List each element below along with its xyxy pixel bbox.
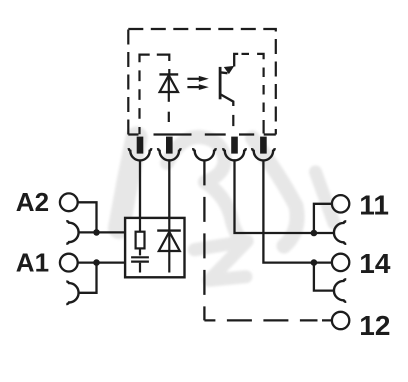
outer module dashed box bottom — [128, 133, 275, 135]
watermark stroke 1 (left band) — [119, 138, 137, 229]
optocoupler LED D1 anode lead — [168, 74, 170, 101]
phototransistor Q1 emitter riser — [234, 54, 238, 67]
plug contact 5 cup — [252, 148, 274, 160]
phototransistor Q1 collector line — [220, 94, 233, 106]
plug contact 4 cup — [223, 148, 245, 160]
svg-text:A2: A2 — [16, 187, 49, 217]
dashed internal wire: collector top run dashes — [242, 53, 250, 55]
dashed internal wire: LED anode to pin2 — [168, 112, 170, 122]
watermark stroke 6 (far right tick) — [316, 172, 335, 223]
phototransistor Q1 base bar — [219, 67, 222, 99]
dashed internal wire: emitter to pin4 — [232, 115, 234, 126]
plug contact 2 wire down — [168, 160, 170, 218]
dashed internal wire: pin5 riser dashes — [263, 68, 265, 134]
dashed internal wire: pin1 riser dashes — [138, 70, 140, 134]
diode D2 triangle — [159, 232, 180, 251]
diode D2 lead top — [168, 218, 170, 273]
wire from clamp A1 up — [79, 264, 97, 293]
plug contact 1 wire down — [139, 160, 141, 218]
wire riser to terminal 11 — [314, 204, 332, 233]
phototransistor Q1 emitter stub to arrow — [220, 71, 228, 74]
clamp contact 14 — [334, 279, 346, 301]
clamp contact 11 — [334, 221, 346, 243]
watermark stroke 3 (center descender) — [205, 182, 242, 241]
junction node at 11 branch — [311, 230, 318, 237]
plug contact 1 cup — [129, 148, 151, 160]
light arrow 2 — [187, 84, 208, 90]
clamp contact A2 — [66, 221, 78, 243]
capacitor C1 lead bottom — [139, 263, 141, 273]
terminal circle 14 — [332, 254, 349, 271]
diode D2 cathode bar — [157, 229, 181, 231]
svg-text:14: 14 — [359, 248, 391, 279]
watermark stroke 5 (right diagonal hook) — [253, 138, 298, 246]
wire from A2 circle — [78, 202, 97, 231]
plug contact 2 cup — [158, 148, 180, 160]
terminal circle 12 — [332, 312, 349, 329]
input circuit box — [125, 218, 184, 277]
dashed internal wire: top run corner to LED — [157, 55, 170, 61]
terminal circle A2 — [60, 193, 78, 211]
outer module dashed box left — [127, 29, 129, 135]
resistor R1 body — [136, 232, 145, 249]
junction node at 14 branch — [311, 259, 318, 266]
wire down to clamp 14 — [314, 263, 334, 291]
light arrow 1 — [187, 76, 208, 82]
plug contact 2 pin — [166, 137, 173, 154]
wire from A1 circle to input box — [78, 261, 125, 263]
svg-text:11: 11 — [359, 190, 389, 221]
dashed internal wire: top right corner — [257, 54, 264, 59]
terminal circle A1 — [60, 254, 78, 272]
plug contact 4 pin — [231, 137, 238, 154]
plug contact 1 pin — [137, 137, 144, 154]
wire from clamp A2 to input box — [79, 231, 126, 233]
optocoupler LED D1 cathode bar — [159, 73, 178, 75]
outer module dashed box top and right — [128, 29, 275, 135]
junction node A2 — [93, 229, 100, 236]
resistor R1 lead bottom — [139, 248, 141, 255]
capacitor C1 plates — [131, 257, 149, 261]
plug contact 5 wire down and right — [263, 160, 332, 262]
phototransistor Q1 emitter arrowhead — [224, 66, 235, 74]
dashed internal wire: pin1 riser corner — [140, 55, 150, 63]
junction node A1 — [93, 259, 100, 266]
dashed wire to terminal 12 (horizontal) — [204, 319, 332, 321]
wire to clamp 11 — [314, 232, 334, 234]
resistor R1 lead top — [139, 218, 141, 232]
terminal circle 11 — [332, 195, 349, 212]
clamp contact A1 — [66, 282, 78, 304]
plug contact 3 cup (no pin) — [193, 148, 215, 160]
dashed internal wire: LED cathode drop dash — [168, 69, 170, 74]
dashed wire to terminal 12 (vertical) — [203, 160, 205, 320]
optocoupler LED D1 triangle — [160, 75, 178, 92]
watermark stroke 2 (center top curve) — [167, 137, 225, 182]
svg-text:A1: A1 — [16, 247, 49, 277]
plug contact 4 wire down and right — [235, 160, 314, 233]
watermark stroke 4 (bottom zigzag) — [194, 241, 247, 280]
svg-text:12: 12 — [359, 310, 390, 341]
plug contact 5 pin — [260, 137, 267, 154]
